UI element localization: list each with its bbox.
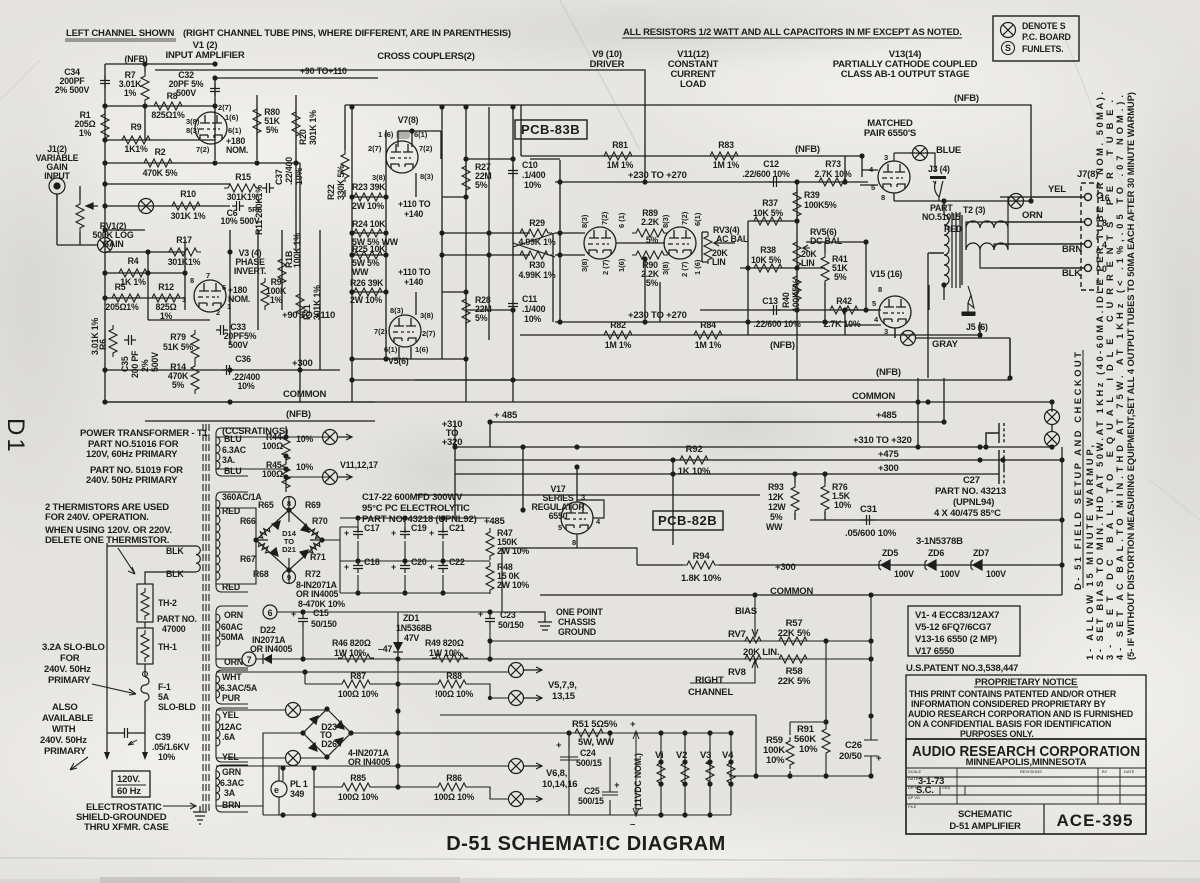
svg-text:AUDIO RESEARCH CORPORATION AND: AUDIO RESEARCH CORPORATION AND IS FURNIS… (908, 709, 1133, 719)
resistor R90 (632, 251, 668, 259)
svg-text:R12: R12 (158, 282, 174, 292)
svg-text:5%: 5% (475, 180, 488, 190)
ground symbol T1 shield (193, 806, 207, 824)
svg-text:1%: 1% (124, 88, 137, 98)
svg-text:1 (6): 1 (6) (378, 130, 394, 139)
svg-text:R40: R40 (781, 292, 791, 308)
svg-text:3(8): 3(8) (420, 311, 434, 320)
svg-text:(5- IF WITHOUT DISTORTION MEAS: (5- IF WITHOUT DISTORTION MEASURING EQUI… (1126, 92, 1136, 660)
svg-text:2 (7): 2 (7) (601, 259, 610, 275)
resistor R57 (775, 637, 811, 645)
svg-text:1M 1%: 1M 1% (607, 160, 634, 170)
svg-text:INFORMATION CONSIDERED PROPRIE: INFORMATION CONSIDERED PROPRIETARY BY (911, 699, 1106, 709)
svg-text:3-1N5378B: 3-1N5378B (916, 536, 963, 547)
resistor R44 (282, 432, 290, 464)
transformer T2 core (952, 212, 960, 288)
wire left rail 2 (144, 64, 146, 140)
title block audio research corporation (906, 739, 1146, 834)
svg-text:2.7K 10%: 2.7K 10% (814, 169, 851, 179)
svg-text:–47: –47 (378, 644, 392, 654)
svg-text:SCHEMATIC: SCHEMATIC (958, 809, 1012, 820)
wire mid ladder rungs (352, 197, 513, 380)
svg-text:R46 820Ω: R46 820Ω (332, 638, 371, 648)
svg-text:5A: 5A (158, 692, 170, 702)
svg-text:22K 5%: 22K 5% (778, 628, 811, 639)
svg-text:301K 1%: 301K 1% (171, 211, 206, 221)
svg-text:7: 7 (206, 271, 210, 280)
svg-text:2W 10%: 2W 10% (497, 580, 529, 590)
resistor R83 (706, 152, 742, 160)
svg-text:22K 5%: 22K 5% (778, 676, 811, 687)
funlet V579 row (509, 663, 524, 678)
svg-text:R2: R2 (155, 147, 166, 157)
resistor R84 (690, 331, 726, 339)
resistor R20 (292, 108, 300, 140)
svg-text:+475: +475 (878, 449, 900, 460)
svg-text:500V: 500V (176, 88, 196, 98)
funlet near RV1 (139, 199, 154, 214)
svg-text:R39: R39 (804, 190, 820, 200)
bridge edge resistors R65-R72 (259, 528, 270, 538)
svg-text:+90 TO +110: +90 TO +110 (282, 310, 335, 321)
wire WHT row (216, 672, 509, 698)
resistor R49 (432, 654, 468, 662)
svg-text:5%: 5% (646, 235, 659, 245)
funlet blue (913, 146, 928, 161)
svg-text:6(1): 6(1) (414, 130, 428, 139)
svg-text:8(3): 8(3) (420, 172, 434, 181)
svg-text:DC BAL: DC BAL (810, 236, 843, 246)
svg-text:20K LIN.: 20K LIN. (743, 647, 779, 658)
svg-text:RV7: RV7 (728, 629, 746, 640)
svg-text:100Ω 10%: 100Ω 10% (338, 689, 379, 699)
svg-text:5%: 5% (646, 278, 659, 288)
resistor R8 (150, 102, 186, 110)
svg-text:1N5368B: 1N5368B (396, 623, 432, 633)
svg-text:10%: 10% (524, 314, 541, 324)
svg-text:1M 1%: 1M 1% (695, 340, 722, 350)
svg-text:R5: R5 (115, 282, 126, 292)
120V 60Hz box (112, 771, 150, 797)
svg-text:+: + (391, 562, 396, 572)
svg-text:R84: R84 (700, 320, 716, 330)
svg-text:ON A CONFIDENTIAL BASIS FOR ID: ON A CONFIDENTIAL BASIS FOR IDENTIFICATI… (908, 719, 1111, 729)
svg-text:C36: C36 (235, 354, 251, 364)
svg-text:ZD1: ZD1 (403, 613, 419, 623)
svg-text:(NFB): (NFB) (770, 340, 795, 351)
resistor R59 (786, 737, 794, 769)
svg-text:C20: C20 (411, 557, 427, 567)
PCB-83B box (515, 120, 587, 139)
wire output to transformer (930, 201, 962, 300)
resistor R15 (224, 184, 260, 192)
svg-text:ZD5: ZD5 (882, 548, 898, 558)
svg-text:R49 820Ω: R49 820Ω (425, 638, 464, 648)
svg-text:D1: D1 (2, 418, 29, 455)
svg-text:1.8K 10%: 1.8K 10% (681, 573, 722, 584)
svg-text:AVAILABLE: AVAILABLE (42, 713, 93, 724)
svg-text:AP VD: AP VD (908, 795, 920, 800)
svg-text:+485: +485 (876, 410, 898, 421)
svg-text:R30: R30 (529, 260, 545, 270)
svg-text:5: 5 (558, 523, 562, 532)
T1 core dashed (203, 424, 209, 812)
resistor R6 (109, 325, 117, 357)
tube complement table (908, 606, 1020, 657)
funlet heater 1 (323, 430, 338, 445)
svg-text:1 (6): 1 (6) (693, 259, 702, 275)
svg-text:6(1): 6(1) (384, 345, 398, 354)
svg-text:+300: +300 (292, 358, 313, 369)
svg-text:P.C. BOARD: P.C. BOARD (1022, 32, 1071, 42)
svg-text:5%: 5% (172, 380, 185, 390)
svg-text:10%: 10% (766, 755, 785, 766)
svg-text:95°C PC ELECTROLYTIC: 95°C PC ELECTROLYTIC (362, 503, 470, 514)
wire GRN rows (216, 766, 509, 815)
resistor R2 (140, 159, 176, 167)
resistor R9 (118, 136, 154, 144)
svg-text:12AC: 12AC (220, 722, 243, 732)
svg-text:3.01K 1%: 3.01K 1% (90, 318, 100, 355)
svg-text:COMMON: COMMON (852, 391, 895, 402)
wire R51 C24 C25 (440, 715, 756, 815)
capacitor C39 (120, 728, 132, 738)
svg-text:1%: 1% (270, 295, 283, 305)
svg-text:AC BAL: AC BAL (716, 234, 749, 244)
svg-text:CROSS COUPLERS(2): CROSS COUPLERS(2) (377, 51, 474, 62)
resistor R45 (282, 460, 290, 492)
wire right low mesh (700, 402, 1062, 595)
svg-text:10,14,16: 10,14,16 (542, 779, 577, 790)
svg-text:2: 2 (216, 308, 220, 317)
svg-text:BLU: BLU (224, 434, 241, 444)
svg-text:SCALE: SCALE (908, 769, 921, 774)
capacitor C23 (485, 614, 495, 626)
svg-text:R23 39K: R23 39K (352, 182, 386, 192)
resistor R26 (350, 288, 386, 296)
svg-text:1%: 1% (160, 311, 173, 321)
svg-text:349: 349 (290, 789, 304, 799)
svg-text:ACE-395: ACE-395 (1057, 811, 1134, 830)
svg-text:(NFB): (NFB) (876, 367, 901, 378)
svg-text:R42: R42 (836, 296, 852, 306)
funlet nfb right (1009, 194, 1024, 209)
resistor R76 (821, 482, 829, 514)
svg-text:R65: R65 (258, 500, 274, 510)
resistor R40 (793, 272, 801, 304)
svg-text:6.3AC/5A: 6.3AC/5A (220, 683, 258, 693)
svg-text:PROPRIETARY NOTICE: PROPRIETARY NOTICE (975, 677, 1077, 688)
tube V3 (194, 280, 226, 312)
svg-text:R93: R93 (768, 482, 784, 492)
wire mid page buses (105, 378, 1062, 495)
svg-text:PRIMARY: PRIMARY (44, 746, 87, 757)
bridge D23-D26 (303, 709, 351, 757)
thermistor TH-2 (137, 584, 153, 622)
svg-text:(UPNL94): (UPNL94) (953, 497, 994, 508)
svg-text:+: + (478, 609, 483, 619)
svg-text:Vi: Vi (655, 750, 663, 761)
svg-text:+230 TO +270: +230 TO +270 (628, 170, 687, 181)
svg-text:FUNLETS.: FUNLETS. (1022, 44, 1063, 54)
svg-text:.05/600 10%: .05/600 10% (845, 528, 897, 539)
capacitor C6 (232, 201, 244, 211)
svg-text:+320: +320 (442, 437, 463, 448)
svg-text:V3: V3 (700, 750, 711, 761)
resistor R5 (108, 294, 144, 302)
capacitor C34 (100, 76, 110, 88)
svg-text:GRN: GRN (222, 767, 241, 777)
svg-text:7(2): 7(2) (600, 211, 609, 225)
pilot lamp PL1 (271, 781, 287, 797)
wire v3 column (148, 163, 320, 402)
svg-text:100K 1%: 100K 1% (292, 233, 302, 268)
svg-text:PCB-82B: PCB-82B (658, 513, 717, 528)
svg-text:3: 3 (884, 153, 888, 162)
svg-text:10%: 10% (294, 168, 304, 185)
svg-text:FOR 240V. OPERATION.: FOR 240V. OPERATION. (45, 512, 149, 523)
svg-text:+: + (614, 780, 620, 791)
svg-text:51K 5%: 51K 5% (163, 342, 193, 352)
bridge rectifier D14-D21 (256, 510, 322, 570)
tube V1 (195, 112, 227, 144)
svg-text:+: + (876, 753, 882, 764)
svg-text:+140: +140 (404, 277, 423, 287)
svg-text:PL 1: PL 1 (290, 779, 308, 789)
funlet yel bottom (286, 751, 301, 766)
wire R81 R83 rail (521, 155, 862, 157)
svg-text:8: 8 (572, 538, 576, 547)
svg-text:360AC/1A: 360AC/1A (222, 492, 262, 502)
resistor R87 (338, 680, 374, 688)
svg-text:+: + (391, 528, 396, 538)
wire +90 rail top (215, 77, 378, 79)
svg-text:3: 3 (182, 295, 186, 304)
resistor R25 (350, 251, 386, 259)
svg-text:ZD6: ZD6 (928, 548, 944, 558)
svg-text:1(6): 1(6) (617, 258, 626, 272)
PCB-82B box (653, 511, 723, 530)
svg-text:10%: 10% (834, 500, 851, 510)
svg-text:4.99K 1%: 4.99K 1% (518, 270, 555, 280)
svg-text:+: + (344, 562, 349, 572)
capacitor C12 (769, 177, 781, 187)
svg-text:6: 6 (222, 283, 226, 292)
svg-text:3A: 3A (224, 788, 236, 798)
resistor R42 (826, 306, 862, 314)
winding YEL 12AC (216, 708, 248, 762)
svg-text:V11,12,17: V11,12,17 (340, 460, 378, 470)
svg-text:+300: +300 (878, 463, 899, 474)
svg-text:R26 39K: R26 39K (350, 278, 384, 288)
svg-text:6.3AC: 6.3AC (220, 778, 245, 788)
svg-text:THRU XFMR. CASE: THRU XFMR. CASE (84, 822, 169, 833)
wire R59 R91 C26 (790, 595, 878, 776)
svg-text:R20: R20 (298, 129, 308, 145)
wire top long rail (345, 105, 1031, 201)
svg-text:.22/400: .22/400 (284, 157, 294, 185)
svg-text:R70: R70 (312, 516, 328, 526)
winding 360AC (216, 492, 248, 592)
wires heater top (216, 426, 330, 492)
wire regulator loop (540, 467, 810, 595)
svg-text:C12: C12 (763, 159, 779, 169)
svg-text:OR IN4005: OR IN4005 (250, 644, 293, 654)
svg-text:BLK: BLK (1062, 268, 1081, 279)
svg-text:5%: 5% (475, 313, 488, 323)
svg-text:V13-16 6550 (2 MP): V13-16 6550 (2 MP) (915, 634, 997, 645)
svg-text:ALL RESISTORS 1/2 WATT AND A: ALL RESISTORS 1/2 WATT AND ALL CAPACITOR… (623, 27, 962, 38)
resistor R58 (775, 655, 811, 663)
svg-text:(NFB): (NFB) (286, 409, 311, 420)
resistor R17 (165, 248, 201, 256)
svg-text:WITH: WITH (52, 724, 76, 735)
svg-text:2% 500V: 2% 500V (55, 85, 90, 95)
svg-text:10%: 10% (237, 381, 254, 391)
svg-text:R11 280K1%: R11 280K1% (254, 185, 264, 235)
svg-text:R10: R10 (180, 189, 196, 199)
funlet gray (901, 331, 916, 346)
svg-text:.1/400: .1/400 (522, 170, 546, 180)
svg-text:3: 3 (581, 493, 585, 502)
svg-text:1(6): 1(6) (415, 345, 429, 354)
svg-text:+110 TO: +110 TO (398, 267, 431, 277)
svg-text:DRIVER: DRIVER (590, 59, 625, 70)
svg-text:CHASSIS: CHASSIS (558, 617, 596, 627)
svg-text:R94: R94 (693, 551, 711, 562)
svg-text:COMMON: COMMON (770, 586, 813, 597)
svg-text:10K 5%: 10K 5% (751, 255, 781, 265)
svg-text:10%: 10% (524, 180, 541, 190)
svg-text:+: + (630, 719, 636, 730)
svg-text:CHANNEL: CHANNEL (688, 687, 733, 698)
svg-text:500V: 500V (228, 340, 248, 350)
capacitor C32 (210, 84, 220, 96)
svg-text:PUR: PUR (222, 693, 241, 703)
resistor R4 (115, 269, 151, 277)
svg-text:NOM.: NOM. (226, 145, 248, 155)
svg-text:240V. 50Hz PRIMARY: 240V. 50Hz PRIMARY (86, 475, 178, 486)
svg-text:YEL: YEL (1048, 184, 1066, 195)
transformer T2 primary winding (944, 215, 949, 285)
pot RV8 squiggle (745, 655, 761, 661)
resistor R18 (278, 255, 286, 287)
svg-text:5: 5 (871, 183, 875, 192)
svg-text:5%: 5% (770, 512, 783, 522)
svg-text:6 (1): 6 (1) (617, 212, 626, 228)
svg-text:ZD7: ZD7 (973, 548, 989, 558)
svg-text:R79: R79 (170, 332, 186, 342)
svg-text:R8: R8 (167, 91, 178, 101)
svg-text:BIAS: BIAS (735, 606, 757, 617)
svg-text:5%: 5% (266, 125, 279, 135)
svg-text:C22: C22 (449, 557, 465, 567)
svg-text:5W, WW: 5W, WW (578, 737, 614, 748)
svg-text:SLO-BLD: SLO-BLD (158, 702, 196, 712)
svg-text:(RIGHT CHANNEL TUBE PINS, WHER: (RIGHT CHANNEL TUBE PINS, WHERE DIFFEREN… (183, 28, 511, 39)
svg-text:120V.: 120V. (117, 774, 140, 785)
funlet heater 2 (323, 470, 338, 485)
svg-text:V5-12 6FQ7/6CG7: V5-12 6FQ7/6CG7 (915, 622, 991, 633)
svg-text:D21: D21 (282, 545, 296, 554)
svg-text:1W 10%: 1W 10% (334, 648, 366, 658)
resistor R46 (338, 654, 374, 662)
svg-text:200 PF: 200 PF (130, 350, 140, 378)
svg-text:RIGHT: RIGHT (695, 675, 724, 686)
svg-text:OR IN4005: OR IN4005 (296, 589, 339, 599)
svg-text:C26: C26 (845, 740, 862, 751)
svg-text:D22: D22 (260, 625, 276, 635)
svg-text:100V: 100V (940, 569, 960, 579)
svg-text:V17 6550: V17 6550 (915, 646, 954, 657)
svg-text:R67: R67 (240, 554, 256, 564)
resistor R1 (101, 110, 109, 142)
svg-text:C35: C35 (120, 356, 130, 372)
svg-text:(11VDC NOM.): (11VDC NOM.) (633, 753, 643, 810)
tube V7 (386, 141, 418, 173)
svg-text:RV8: RV8 (728, 667, 746, 678)
svg-text:1M 1%: 1M 1% (605, 340, 632, 350)
svg-text:J3 (4): J3 (4) (928, 164, 950, 174)
svg-text:ONE POINT: ONE POINT (556, 607, 603, 617)
potentiometer RV1 (76, 200, 98, 232)
resistor R88 (434, 680, 470, 688)
svg-text:(NFB): (NFB) (795, 144, 820, 155)
svg-text:R85: R85 (350, 773, 366, 783)
svg-text:100V: 100V (894, 569, 914, 579)
svg-text:R71: R71 (310, 552, 326, 562)
svg-text:.05/1.6KV: .05/1.6KV (152, 742, 190, 752)
resistor R79 (191, 330, 199, 362)
wire output grid (845, 153, 1031, 378)
resistor R38 (750, 264, 786, 272)
svg-text:500V: 500V (150, 352, 160, 372)
junction dots main grid (102, 61, 1064, 567)
svg-text:+230 TO +270: +230 TO +270 (628, 310, 687, 321)
resistor R23 (350, 193, 386, 201)
svg-text:PCB-83B: PCB-83B (521, 122, 580, 137)
resistor R94 (683, 561, 719, 569)
svg-text:7(2): 7(2) (419, 144, 433, 153)
winding ORN 60AC (216, 606, 248, 668)
svg-text:REVISIONS: REVISIONS (1020, 769, 1042, 774)
svg-text:6(1): 6(1) (693, 212, 702, 226)
thermistor TH-1 (137, 628, 153, 664)
capacitors C18 C20 C22 (353, 561, 363, 573)
svg-text:+: + (556, 740, 562, 751)
svg-text:60 Hz: 60 Hz (117, 786, 141, 797)
svg-text:10%: 10% (296, 434, 313, 444)
transformer T2 secondary winding (966, 197, 1084, 268)
svg-text:2(7): 2(7) (422, 329, 436, 338)
svg-text:.22/600 10%: .22/600 10% (742, 169, 790, 179)
wire nfb right vertical (1009, 338, 1011, 378)
svg-text:301K1%: 301K1% (168, 257, 201, 267)
svg-text:R73: R73 (825, 159, 841, 169)
svg-text:+110 TO: +110 TO (398, 199, 431, 209)
wire V1-V4 heater columns (661, 733, 871, 815)
svg-text:THIS PRINT CONTAINS PATENTED A: THIS PRINT CONTAINS PATENTED AND/OR OTHE… (909, 689, 1117, 699)
bridge wires (216, 496, 340, 584)
svg-text:10%: 10% (158, 752, 175, 762)
svg-text:+: + (429, 528, 434, 538)
wire left mesh (105, 106, 300, 230)
svg-text:301K 1%: 301K 1% (308, 110, 318, 145)
svg-text:R25 10K: R25 10K (352, 244, 386, 254)
svg-text:TH-2: TH-2 (158, 598, 177, 608)
potentiometer RV5 (793, 238, 801, 270)
svg-text:BLU: BLU (224, 466, 241, 476)
